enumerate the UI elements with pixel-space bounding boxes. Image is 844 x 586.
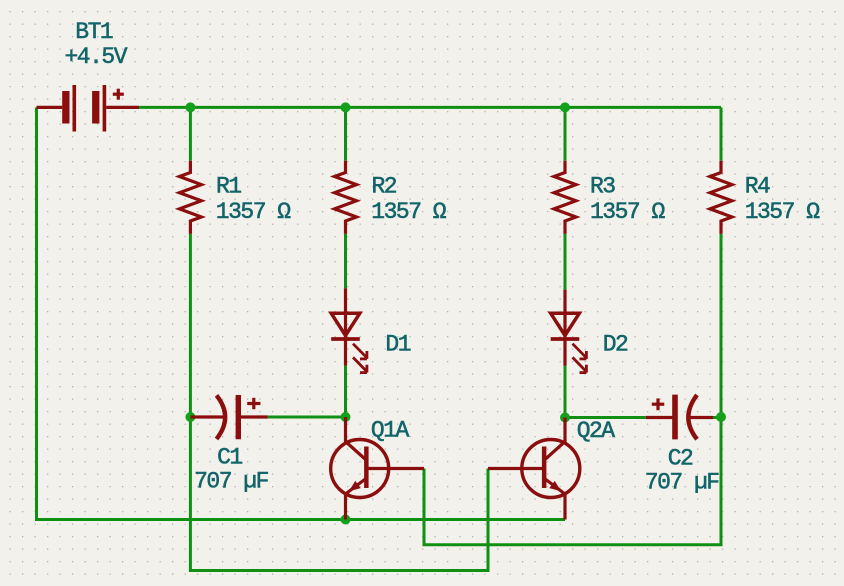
wire: right rail x=721 bbox=[720, 107, 723, 160]
wire: column x=345.5 top to R2 bbox=[344, 107, 347, 160]
transistor Q2 bbox=[488, 418, 580, 520]
junction node Q1 collector bbox=[341, 412, 351, 422]
svg-text:1357 Ω: 1357 Ω bbox=[371, 199, 447, 225]
junction node C1 left / R1 bottom bbox=[185, 412, 195, 422]
svg-text:+4.5V: +4.5V bbox=[65, 44, 128, 70]
svg-text:BT1: BT1 bbox=[75, 19, 113, 45]
capacitor C1 bbox=[190, 395, 267, 439]
wire: D2 bottom to Q2 collector node bbox=[564, 366, 567, 418]
wire: D1 bottom to collector node bbox=[344, 366, 347, 418]
junction node Q2 collector bbox=[560, 413, 570, 423]
svg-text:1357 Ω: 1357 Ω bbox=[590, 199, 666, 225]
resistor R2 bbox=[335, 161, 357, 234]
svg-text:D2: D2 bbox=[603, 331, 628, 357]
svg-text:1357 Ω: 1357 Ω bbox=[745, 199, 821, 225]
svg-text:R4: R4 bbox=[745, 173, 770, 199]
resistor R4 bbox=[710, 161, 732, 234]
wire: top rail bbox=[139, 106, 721, 109]
svg-text:R2: R2 bbox=[372, 173, 397, 199]
resistor R3 bbox=[554, 161, 576, 234]
wire: C1 right pin to collector node bbox=[268, 416, 346, 419]
wire: Q2 collector node to C2 left pin bbox=[565, 416, 646, 419]
svg-text:Q1A: Q1A bbox=[371, 418, 410, 444]
capacitor C2 bbox=[646, 395, 713, 440]
wire: R3 bottom to D2 top bbox=[564, 234, 567, 290]
wire: column x=190 upper segment bbox=[189, 107, 192, 160]
transistor Q1 bbox=[331, 417, 424, 520]
wire: right rail R4 bottom to C2 node bbox=[720, 234, 723, 417]
junction at top rail x=565 bbox=[560, 102, 570, 112]
svg-text:C2: C2 bbox=[668, 446, 693, 472]
svg-text:D1: D1 bbox=[385, 331, 410, 357]
junction at top rail x=190 bbox=[185, 102, 195, 112]
wire: column x=190 lower segment, corner to Q2 base riser bbox=[190, 234, 488, 571]
svg-text:C1: C1 bbox=[217, 444, 242, 470]
svg-text:R3: R3 bbox=[590, 173, 615, 199]
wire: column x=565 top to R3 bbox=[564, 107, 567, 160]
wire: right rail down, cross wire to Q1 base riser bbox=[424, 417, 721, 545]
battery BT1 bbox=[37, 85, 140, 132]
wire: left rail down and bottom emitter rail bbox=[37, 107, 566, 519]
wire: R2 bottom to D1 top bbox=[344, 234, 347, 289]
svg-text:707 µF: 707 µF bbox=[194, 469, 269, 495]
junction node Q1 emitter bbox=[341, 515, 351, 525]
resistor R1 bbox=[179, 161, 201, 234]
LED D2 bbox=[551, 290, 587, 373]
svg-text:Q2A: Q2A bbox=[577, 418, 616, 444]
junction at top rail x=345.5 bbox=[341, 102, 351, 112]
svg-text:R1: R1 bbox=[216, 173, 241, 199]
wire: C2 right pin to right rail bbox=[711, 416, 721, 419]
LED D1 bbox=[331, 288, 367, 372]
svg-text:1357 Ω: 1357 Ω bbox=[216, 199, 292, 225]
svg-text:707 µF: 707 µF bbox=[645, 470, 720, 496]
junction node C2 right / R4 bottom bbox=[716, 412, 726, 422]
